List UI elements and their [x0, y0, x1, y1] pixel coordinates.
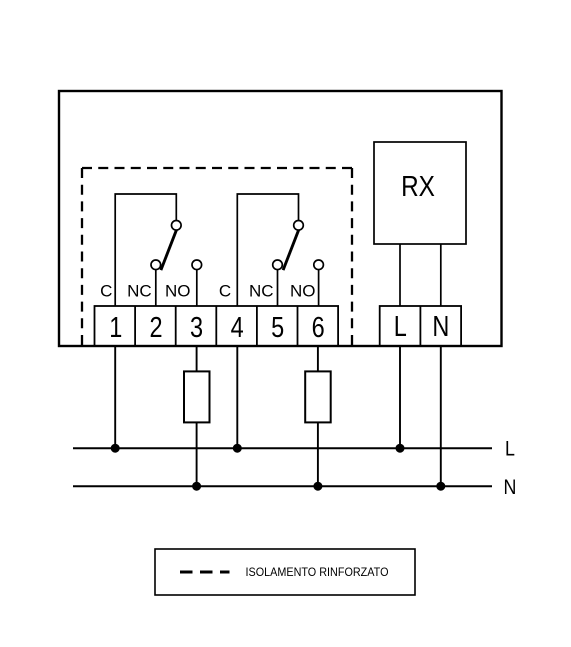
svg-text:L: L: [505, 437, 515, 461]
svg-text:ISOLAMENTO RINFORZATO: ISOLAMENTO RINFORZATO: [246, 565, 389, 579]
svg-text:N: N: [432, 310, 449, 343]
svg-text:NC: NC: [249, 282, 274, 301]
svg-text:4: 4: [231, 311, 244, 344]
svg-text:C: C: [219, 282, 231, 301]
svg-text:RX: RX: [401, 170, 435, 202]
svg-text:1: 1: [109, 311, 122, 344]
svg-text:N: N: [504, 475, 517, 499]
svg-text:NO: NO: [290, 282, 316, 301]
svg-text:NO: NO: [165, 282, 191, 301]
svg-text:L: L: [394, 310, 407, 343]
svg-text:2: 2: [149, 311, 162, 344]
svg-text:5: 5: [271, 311, 284, 344]
svg-text:6: 6: [312, 311, 325, 344]
svg-text:3: 3: [190, 311, 203, 344]
svg-text:NC: NC: [127, 282, 152, 301]
svg-text:C: C: [100, 282, 112, 301]
